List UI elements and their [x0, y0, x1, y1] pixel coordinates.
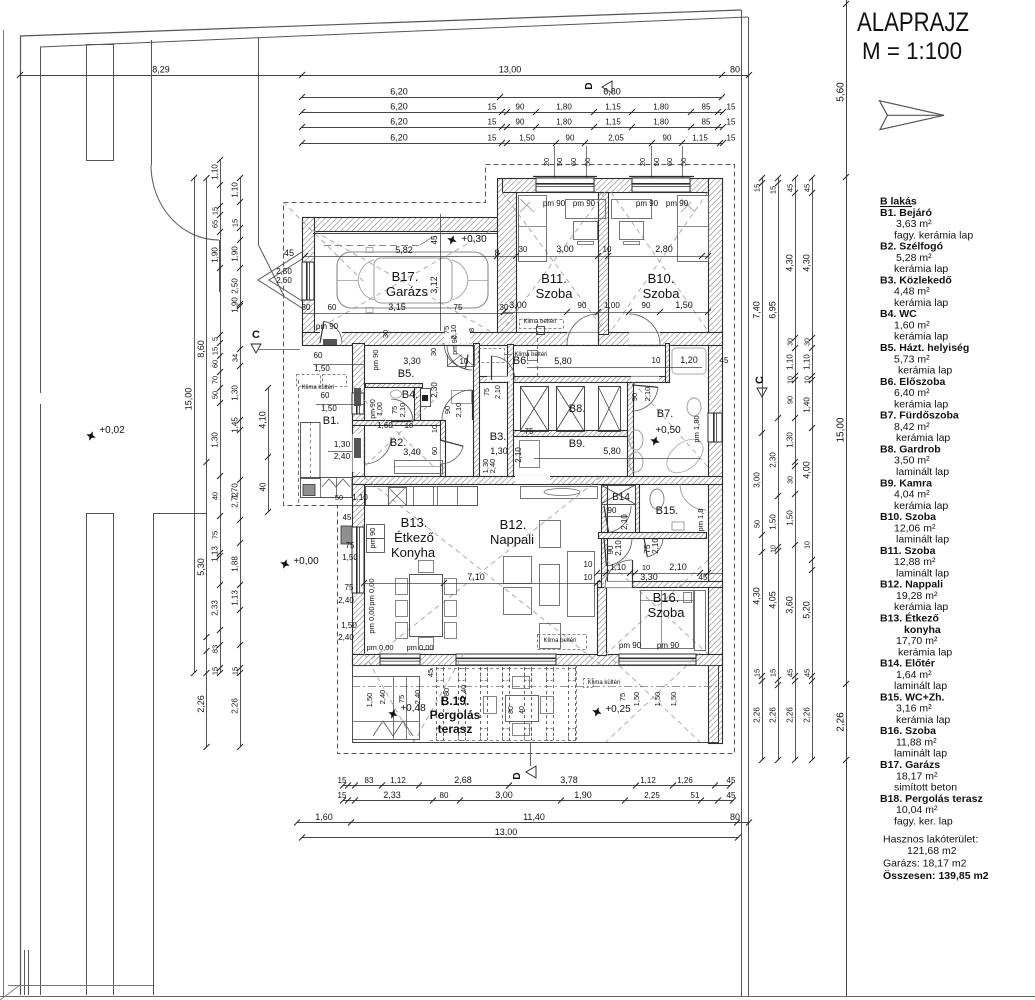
svg-text:B10.: B10.	[648, 271, 675, 286]
svg-text:10: 10	[405, 421, 413, 430]
svg-text:B1. Bejáró: B1. Bejáró	[880, 207, 932, 219]
svg-text:15: 15	[769, 669, 778, 677]
svg-text:1,50: 1,50	[314, 364, 330, 373]
svg-text:60: 60	[569, 158, 578, 166]
svg-text:15: 15	[727, 118, 736, 127]
svg-text:75: 75	[397, 695, 406, 703]
svg-text:kerámia lap: kerámia lap	[894, 297, 948, 309]
svg-text:80: 80	[730, 812, 740, 822]
svg-text:+0,02: +0,02	[99, 425, 125, 436]
svg-text:30: 30	[302, 303, 311, 312]
svg-text:Szoba: Szoba	[648, 605, 686, 620]
svg-text:1,10: 1,10	[803, 354, 812, 370]
svg-text:1,26: 1,26	[677, 776, 693, 785]
svg-text:Klima beltéri: Klima beltéri	[543, 638, 576, 644]
svg-text:laminált lap: laminált lap	[894, 748, 947, 760]
svg-text:kerámia lap: kerámia lap	[898, 646, 952, 658]
svg-text:kerámia lap: kerámia lap	[894, 331, 948, 343]
svg-text:60: 60	[211, 360, 220, 368]
svg-text:8,42 m²: 8,42 m²	[894, 421, 930, 433]
svg-text:20: 20	[542, 158, 551, 166]
svg-text:2,33: 2,33	[383, 790, 401, 800]
svg-text:50: 50	[583, 158, 592, 166]
svg-text:6,20: 6,20	[390, 87, 408, 97]
svg-text:pm 90: pm 90	[368, 528, 377, 549]
svg-text:B14. Előtér: B14. Előtér	[880, 658, 935, 670]
svg-text:60: 60	[430, 447, 439, 455]
svg-text:80: 80	[440, 791, 449, 800]
svg-text:30: 30	[429, 348, 438, 356]
svg-text:10: 10	[788, 376, 795, 384]
svg-text:B12.: B12.	[500, 517, 527, 532]
svg-text:2,40: 2,40	[413, 690, 422, 705]
svg-text:B6. Előszoba: B6. Előszoba	[880, 376, 946, 388]
svg-text:5,80: 5,80	[603, 446, 621, 456]
svg-text:13,00: 13,00	[495, 827, 518, 837]
svg-text:3,15: 3,15	[388, 302, 406, 312]
svg-text:2,40: 2,40	[334, 451, 351, 461]
svg-text:B13.: B13.	[401, 515, 428, 530]
svg-text:1,80: 1,80	[653, 103, 669, 112]
svg-text:3,12: 3,12	[429, 276, 439, 294]
svg-text:kerámia lap: kerámia lap	[894, 500, 948, 512]
svg-text:2,10: 2,10	[495, 385, 502, 399]
svg-text:83: 83	[365, 776, 374, 785]
svg-text:C: C	[754, 376, 766, 384]
svg-text:2,26: 2,26	[836, 712, 847, 732]
svg-text:17,70 m²: 17,70 m²	[896, 635, 938, 647]
svg-text:Nappali: Nappali	[490, 532, 534, 547]
svg-text:2,60: 2,60	[276, 276, 292, 285]
svg-text:Garázs: 18,17 m2: Garázs: 18,17 m2	[883, 858, 967, 870]
svg-text:30: 30	[519, 245, 528, 254]
svg-text:pm 0,00: pm 0,00	[367, 578, 376, 605]
svg-text:2,26: 2,26	[786, 707, 795, 723]
svg-text:80: 80	[442, 688, 451, 696]
svg-text:B16. Szoba: B16. Szoba	[880, 725, 936, 737]
svg-text:kerámia lap: kerámia lap	[894, 398, 948, 410]
svg-text:2,50: 2,50	[231, 278, 240, 294]
svg-text:Szoba: Szoba	[536, 286, 574, 301]
svg-text:Szoba: Szoba	[643, 286, 681, 301]
svg-text:2,26: 2,26	[769, 707, 778, 723]
svg-text:pm 1,80: pm 1,80	[692, 415, 701, 442]
svg-text:1,60 m²: 1,60 m²	[894, 319, 930, 331]
svg-text:15: 15	[211, 207, 220, 215]
svg-text:30: 30	[381, 330, 390, 338]
svg-text:30: 30	[788, 476, 795, 484]
svg-text:1,90: 1,90	[231, 246, 240, 262]
svg-text:90: 90	[642, 301, 651, 310]
svg-text:10: 10	[603, 245, 612, 254]
svg-text:1,30: 1,30	[490, 446, 508, 456]
svg-text:1,50: 1,50	[653, 692, 662, 707]
svg-text:2,40: 2,40	[459, 685, 468, 700]
svg-text:5: 5	[213, 337, 220, 341]
svg-text:1,64 m²: 1,64 m²	[896, 669, 932, 681]
svg-text:80: 80	[508, 706, 515, 714]
svg-text:6,20: 6,20	[390, 102, 408, 112]
svg-text:B12. Nappali: B12. Nappali	[880, 579, 943, 591]
svg-text:20: 20	[638, 158, 647, 166]
svg-text:2,33: 2,33	[211, 600, 220, 616]
svg-text:B6.: B6.	[513, 355, 530, 367]
svg-text:Klima beltéri: Klima beltéri	[523, 319, 556, 325]
svg-text:10: 10	[430, 425, 439, 433]
svg-text:1,80: 1,80	[556, 103, 572, 112]
svg-text:2,30: 2,30	[769, 452, 778, 468]
svg-text:Pergolás: Pergolás	[430, 708, 481, 722]
svg-text:B4.: B4.	[402, 389, 419, 401]
svg-text:10: 10	[805, 376, 812, 384]
svg-text:2,50: 2,50	[276, 267, 292, 276]
svg-text:2,40: 2,40	[488, 459, 497, 474]
svg-text:1,15: 1,15	[692, 134, 708, 143]
svg-text:1,30: 1,30	[786, 432, 795, 448]
svg-text:2,05: 2,05	[608, 134, 624, 143]
svg-text:45: 45	[343, 513, 352, 522]
svg-text:Étkező: Étkező	[394, 530, 434, 545]
svg-text:4,04 m²: 4,04 m²	[894, 489, 930, 501]
svg-text:15: 15	[488, 118, 497, 127]
svg-text:1,10: 1,10	[211, 164, 220, 180]
svg-text:fagy. ker. lap: fagy. ker. lap	[894, 815, 953, 827]
svg-text:B lakás: B lakás	[880, 196, 917, 208]
svg-text:1,10: 1,10	[352, 493, 368, 502]
svg-text:75: 75	[211, 531, 220, 539]
svg-text:Garázs: Garázs	[386, 284, 428, 299]
svg-text:1,88: 1,88	[231, 556, 240, 572]
svg-text:1,50: 1,50	[786, 510, 795, 526]
svg-text:10: 10	[642, 563, 650, 572]
svg-text:B1.: B1.	[323, 415, 340, 427]
svg-text:1,50: 1,50	[341, 621, 357, 630]
svg-text:1,15: 1,15	[605, 118, 621, 127]
svg-text:11,88 m²: 11,88 m²	[896, 736, 937, 748]
svg-text:B9. Kamra: B9. Kamra	[880, 477, 932, 489]
svg-text:3,30: 3,30	[640, 572, 658, 582]
svg-text:5,73 m²: 5,73 m²	[894, 353, 930, 365]
svg-text:70: 70	[211, 376, 220, 384]
svg-text:2,10: 2,10	[620, 514, 629, 530]
svg-text:10: 10	[771, 545, 778, 553]
svg-text:kerámia lap: kerámia lap	[894, 263, 948, 275]
svg-text:fagy. kerámia lap: fagy. kerámia lap	[894, 229, 973, 241]
svg-text:laminált lap: laminált lap	[894, 680, 947, 692]
svg-text:1,30: 1,30	[334, 439, 351, 449]
svg-text:2,26: 2,26	[196, 695, 206, 713]
svg-text:1,15: 1,15	[605, 103, 621, 112]
svg-text:85: 85	[702, 118, 711, 127]
svg-text:15: 15	[488, 134, 497, 143]
svg-text:D: D	[512, 772, 523, 779]
svg-text:15: 15	[338, 791, 347, 800]
svg-text:3,30: 3,30	[403, 356, 421, 366]
svg-text:B17. Garázs: B17. Garázs	[880, 759, 940, 771]
svg-text:B5.: B5.	[398, 368, 415, 380]
svg-text:1,50: 1,50	[365, 693, 374, 708]
svg-text:kerámia lap: kerámia lap	[896, 432, 950, 444]
svg-text:pm 90: pm 90	[657, 641, 680, 650]
svg-text:pm 0,00: pm 0,00	[367, 606, 376, 633]
svg-text:45: 45	[786, 184, 795, 192]
svg-text:pm 90: pm 90	[666, 199, 689, 208]
svg-text:B4. WC: B4. WC	[880, 308, 917, 320]
svg-text:ALAPRAJZ: ALAPRAJZ	[857, 7, 969, 37]
svg-text:pm 1,8: pm 1,8	[696, 509, 705, 532]
svg-text:2,80: 2,80	[655, 244, 673, 254]
svg-text:+0,25: +0,25	[605, 704, 631, 715]
svg-text:15: 15	[338, 776, 347, 785]
svg-text:65: 65	[211, 220, 220, 228]
svg-text:B8. Gardrob: B8. Gardrob	[880, 443, 941, 455]
svg-text:2,10: 2,10	[643, 387, 652, 402]
svg-text:B10. Szoba: B10. Szoba	[880, 511, 936, 523]
svg-text:konyha: konyha	[904, 624, 941, 636]
svg-text:8,60: 8,60	[196, 340, 206, 358]
svg-text:B11. Szoba: B11. Szoba	[880, 545, 936, 557]
svg-text:kerámia lap: kerámia lap	[894, 601, 948, 613]
svg-text:M = 1:100: M = 1:100	[862, 38, 962, 65]
svg-text:pm 90: pm 90	[370, 399, 377, 419]
svg-text:2,10: 2,10	[669, 562, 687, 572]
svg-text:pm 90: pm 90	[452, 335, 459, 355]
svg-text:B5. Házt. helyiség: B5. Házt. helyiség	[880, 342, 969, 354]
svg-text:6,20: 6,20	[390, 133, 408, 143]
svg-text:1,20: 1,20	[680, 355, 698, 365]
svg-text:1,50: 1,50	[769, 514, 778, 530]
svg-text:1,12: 1,12	[390, 776, 406, 785]
svg-text:4,30: 4,30	[802, 254, 812, 272]
svg-text:2,68: 2,68	[454, 775, 472, 785]
svg-text:30: 30	[805, 338, 812, 346]
svg-text:30: 30	[788, 338, 795, 346]
svg-text:90: 90	[566, 134, 575, 143]
svg-text:50: 50	[211, 391, 220, 399]
svg-text:3,00: 3,00	[509, 300, 527, 310]
svg-text:4,05: 4,05	[768, 591, 778, 609]
svg-text:13,00: 13,00	[499, 65, 522, 75]
svg-text:3,00: 3,00	[753, 472, 762, 488]
svg-text:50: 50	[753, 520, 762, 528]
svg-text:kerámia lap: kerámia lap	[898, 365, 952, 377]
svg-text:1,50: 1,50	[342, 553, 358, 562]
svg-text:75: 75	[345, 583, 354, 592]
svg-text:2,26: 2,26	[803, 707, 812, 723]
svg-text:2,26: 2,26	[753, 707, 762, 723]
svg-text:40: 40	[259, 482, 268, 491]
svg-text:1,00: 1,00	[377, 402, 384, 416]
svg-text:5,80: 5,80	[554, 356, 572, 366]
svg-text:6,20: 6,20	[390, 117, 408, 127]
svg-text:2,40: 2,40	[338, 633, 354, 642]
svg-text:B13. Étkező: B13. Étkező	[880, 611, 939, 624]
svg-text:45: 45	[430, 235, 439, 244]
svg-text:10: 10	[584, 560, 593, 569]
svg-text:50: 50	[335, 493, 343, 502]
svg-text:15: 15	[727, 134, 736, 143]
svg-text:B15. WC+Zh.: B15. WC+Zh.	[880, 691, 945, 703]
svg-text:B8.: B8.	[569, 403, 586, 415]
svg-text:34: 34	[231, 354, 240, 362]
svg-text:1,13: 1,13	[231, 590, 240, 606]
svg-text:18,17 m²: 18,17 m²	[896, 770, 938, 782]
svg-text:3,50 m²: 3,50 m²	[894, 455, 930, 467]
svg-text:B3. Közlekedő: B3. Közlekedő	[880, 274, 952, 286]
svg-text:4,00: 4,00	[802, 461, 812, 479]
svg-text:B14: B14	[612, 492, 630, 503]
svg-text:1,50: 1,50	[519, 134, 535, 143]
svg-text:50: 50	[555, 158, 564, 166]
svg-text:12,06 m²: 12,06 m²	[894, 522, 936, 534]
svg-text:15: 15	[753, 669, 762, 677]
svg-text:8: 8	[467, 328, 476, 332]
svg-text:15: 15	[211, 667, 220, 675]
svg-text:60: 60	[321, 391, 330, 400]
svg-text:1,10: 1,10	[610, 563, 626, 572]
svg-text:2,40: 2,40	[378, 690, 387, 705]
svg-text:1,50: 1,50	[675, 300, 693, 310]
svg-text:15,00: 15,00	[836, 417, 847, 442]
svg-text:1,90: 1,90	[574, 790, 592, 800]
svg-text:C: C	[252, 329, 260, 341]
svg-text:B17.: B17.	[392, 269, 419, 284]
svg-text:7,40: 7,40	[752, 301, 762, 319]
svg-text:45: 45	[803, 669, 812, 677]
svg-text:pm 0,00: pm 0,00	[406, 643, 433, 652]
svg-text:10: 10	[460, 357, 469, 366]
svg-text:5,20: 5,20	[802, 601, 812, 619]
svg-text:1,80: 1,80	[653, 118, 669, 127]
svg-text:1,50: 1,50	[321, 404, 337, 413]
svg-text:2,10: 2,10	[398, 403, 407, 418]
svg-text:B11.: B11.	[541, 271, 567, 286]
svg-text:75: 75	[618, 693, 627, 701]
svg-text:90: 90	[516, 118, 525, 127]
svg-text:1,10: 1,10	[786, 354, 795, 370]
svg-text:+0,30: +0,30	[461, 234, 487, 245]
svg-text:19,28 m²: 19,28 m²	[896, 590, 938, 602]
svg-text:10: 10	[584, 573, 593, 582]
svg-text:2,10: 2,10	[454, 403, 463, 418]
svg-text:2,72: 2,72	[231, 492, 240, 508]
svg-text:2,10: 2,10	[651, 538, 660, 554]
svg-text:B7.: B7.	[657, 408, 674, 420]
svg-text:15: 15	[769, 186, 778, 194]
svg-text:45: 45	[284, 248, 294, 258]
svg-text:1,80: 1,80	[556, 118, 572, 127]
svg-text:4,48 m²: 4,48 m²	[894, 286, 930, 298]
svg-text:7,10: 7,10	[467, 572, 485, 582]
svg-text:90: 90	[630, 393, 639, 401]
svg-text:5,28 m²: 5,28 m²	[896, 252, 932, 264]
svg-text:3,00: 3,00	[556, 244, 574, 254]
svg-text:pm 90: pm 90	[316, 322, 339, 331]
svg-text:15: 15	[488, 103, 497, 112]
svg-text:laminált lap: laminált lap	[896, 466, 949, 478]
svg-text:B2. Szélfogó: B2. Szélfogó	[880, 241, 943, 253]
svg-text:6,40 m²: 6,40 m²	[894, 387, 930, 399]
svg-text:10: 10	[652, 356, 661, 365]
svg-text:1,50: 1,50	[632, 692, 641, 707]
svg-text:3,63 m²: 3,63 m²	[896, 218, 932, 230]
svg-text:15: 15	[231, 667, 240, 675]
svg-text:B16.: B16.	[653, 590, 680, 605]
svg-text:pm 90: pm 90	[573, 199, 596, 208]
svg-text:2,10: 2,10	[514, 447, 523, 463]
svg-text:4,10: 4,10	[258, 411, 268, 429]
svg-text:4,30: 4,30	[785, 254, 795, 272]
svg-text:6,95: 6,95	[768, 301, 778, 319]
svg-text:10,04 m²: 10,04 m²	[896, 804, 938, 816]
svg-text:5,82: 5,82	[395, 245, 413, 255]
svg-text:1,13: 1,13	[211, 546, 220, 562]
svg-text:75: 75	[525, 427, 534, 436]
svg-text:90: 90	[786, 396, 795, 404]
svg-text:15: 15	[231, 219, 240, 227]
svg-text:40: 40	[211, 492, 220, 500]
svg-text:2,30: 2,30	[430, 382, 439, 398]
svg-text:11,40: 11,40	[523, 812, 545, 822]
svg-text:83: 83	[211, 645, 220, 653]
svg-text:B9.: B9.	[569, 438, 586, 450]
svg-text:pm 0,00: pm 0,00	[366, 643, 393, 652]
svg-text:1,60: 1,60	[377, 421, 393, 430]
svg-text:60: 60	[314, 351, 323, 360]
svg-text:90: 90	[516, 103, 525, 112]
svg-text:2,26: 2,26	[231, 698, 240, 714]
svg-text:15: 15	[753, 184, 762, 192]
svg-text:75: 75	[346, 541, 355, 550]
svg-text:1,12: 1,12	[640, 776, 656, 785]
svg-text:B3.: B3.	[490, 431, 507, 443]
svg-text:4,30: 4,30	[752, 587, 762, 605]
svg-text:laminált lap: laminált lap	[896, 534, 949, 546]
svg-text:+0,50: +0,50	[655, 425, 681, 436]
svg-text:D: D	[584, 82, 595, 89]
svg-text:1,50: 1,50	[669, 692, 678, 707]
svg-text:60: 60	[328, 303, 337, 312]
svg-text:Konyha: Konyha	[391, 545, 436, 560]
svg-text:1,30: 1,30	[211, 432, 220, 448]
svg-text:90: 90	[608, 506, 617, 515]
svg-text:2,10: 2,10	[614, 540, 623, 556]
svg-text:laminált lap: laminált lap	[896, 567, 949, 579]
svg-text:50: 50	[679, 158, 688, 166]
svg-text:1,40: 1,40	[803, 397, 812, 413]
svg-text:3,40: 3,40	[403, 447, 421, 457]
svg-text:pm 90: pm 90	[619, 641, 642, 650]
svg-text:3,78: 3,78	[560, 775, 578, 785]
svg-text:12,88 m²: 12,88 m²	[894, 556, 936, 568]
svg-text:1,10: 1,10	[231, 182, 240, 198]
svg-text:pm 90: pm 90	[636, 199, 659, 208]
svg-text:15,00: 15,00	[184, 388, 194, 411]
svg-text:15: 15	[727, 103, 736, 112]
svg-text:Összesen: 139,85 m2: Összesen: 139,85 m2	[883, 869, 989, 882]
svg-text:45: 45	[727, 791, 736, 800]
svg-text:simított beton: simított beton	[894, 782, 957, 794]
svg-text:85: 85	[702, 103, 711, 112]
svg-text:60: 60	[665, 158, 674, 166]
svg-text:45: 45	[426, 669, 435, 677]
svg-text:1,00: 1,00	[604, 301, 620, 310]
svg-text:45: 45	[720, 356, 729, 365]
svg-text:50: 50	[652, 158, 661, 166]
svg-text:5,30: 5,30	[196, 558, 206, 576]
svg-text:45: 45	[699, 573, 708, 582]
svg-text:40: 40	[519, 706, 526, 714]
